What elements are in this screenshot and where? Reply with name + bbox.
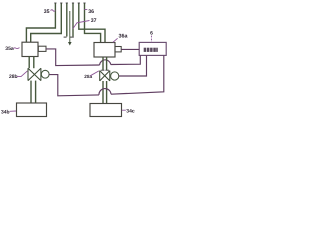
pipe 35 right wall: [31, 3, 62, 42]
pipe 35 left wall: [26, 3, 55, 42]
pipe valve 28b to box 34b: [30, 81, 32, 103]
valve 28a bowtie: [100, 71, 110, 81]
leader 28b: [17, 71, 28, 77]
leader 36: [84, 9, 87, 11]
valve 28b solenoid circle: [41, 70, 49, 78]
svg-text:36: 36: [88, 9, 94, 15]
ECU box: [139, 42, 166, 55]
leader 35a: [13, 48, 19, 49]
leader 28a: [90, 71, 99, 76]
valve 28a solenoid circle: [111, 72, 119, 80]
svg-text:28b: 28b: [9, 74, 18, 80]
pipe 37 flange ticks: [64, 36, 67, 38]
valve 28b bowtie: [28, 68, 41, 80]
pipe box36a to valve 28a: [102, 57, 104, 70]
pipe 36 right wall: [85, 3, 101, 43]
pipe top caps: [54, 2, 85, 4]
box 34c: [90, 104, 122, 117]
leader 37: [73, 21, 90, 29]
svg-text:36a: 36a: [119, 34, 129, 40]
leader 6: [151, 36, 153, 43]
box 35a (canister): [22, 42, 38, 56]
leader 36a: [113, 38, 118, 42]
svg-text:28a: 28a: [84, 74, 92, 79]
ECU text blobs: [144, 48, 158, 52]
stub box on 35a: [38, 46, 46, 51]
wire A hop arc: [100, 60, 111, 65]
flow arrow in pipe 37: [69, 11, 71, 42]
svg-text:35a: 35a: [5, 46, 14, 52]
wire stub36a to ECU: [121, 48, 139, 50]
pipe box35a to valve 28b: [28, 57, 30, 69]
box 34b: [17, 103, 47, 117]
wire A: stub 35a to ECU: [46, 49, 100, 66]
svg-text:35: 35: [44, 9, 50, 15]
pipe 37 left wall: [66, 3, 68, 37]
svg-text:34c: 34c: [126, 109, 135, 115]
wire hop arc over pipe: [99, 89, 111, 95]
svg-text:37: 37: [91, 18, 97, 24]
box 36a: [94, 43, 115, 58]
pipe valve 28a to box 34c: [102, 81, 104, 103]
wire valve28a solenoid to ECU: [119, 55, 147, 76]
stub box on 36a: [115, 47, 121, 52]
pipe 37 right wall: [72, 3, 74, 37]
valve 28a flange ticks: [101, 69, 105, 71]
leader 34b: [10, 110, 16, 112]
leader 34c: [122, 109, 126, 111]
leader 35: [51, 10, 56, 12]
svg-text:34b: 34b: [1, 110, 10, 116]
wire valve28b solenoid to ECU: [49, 75, 99, 96]
pipe 36 left wall: [79, 3, 105, 43]
